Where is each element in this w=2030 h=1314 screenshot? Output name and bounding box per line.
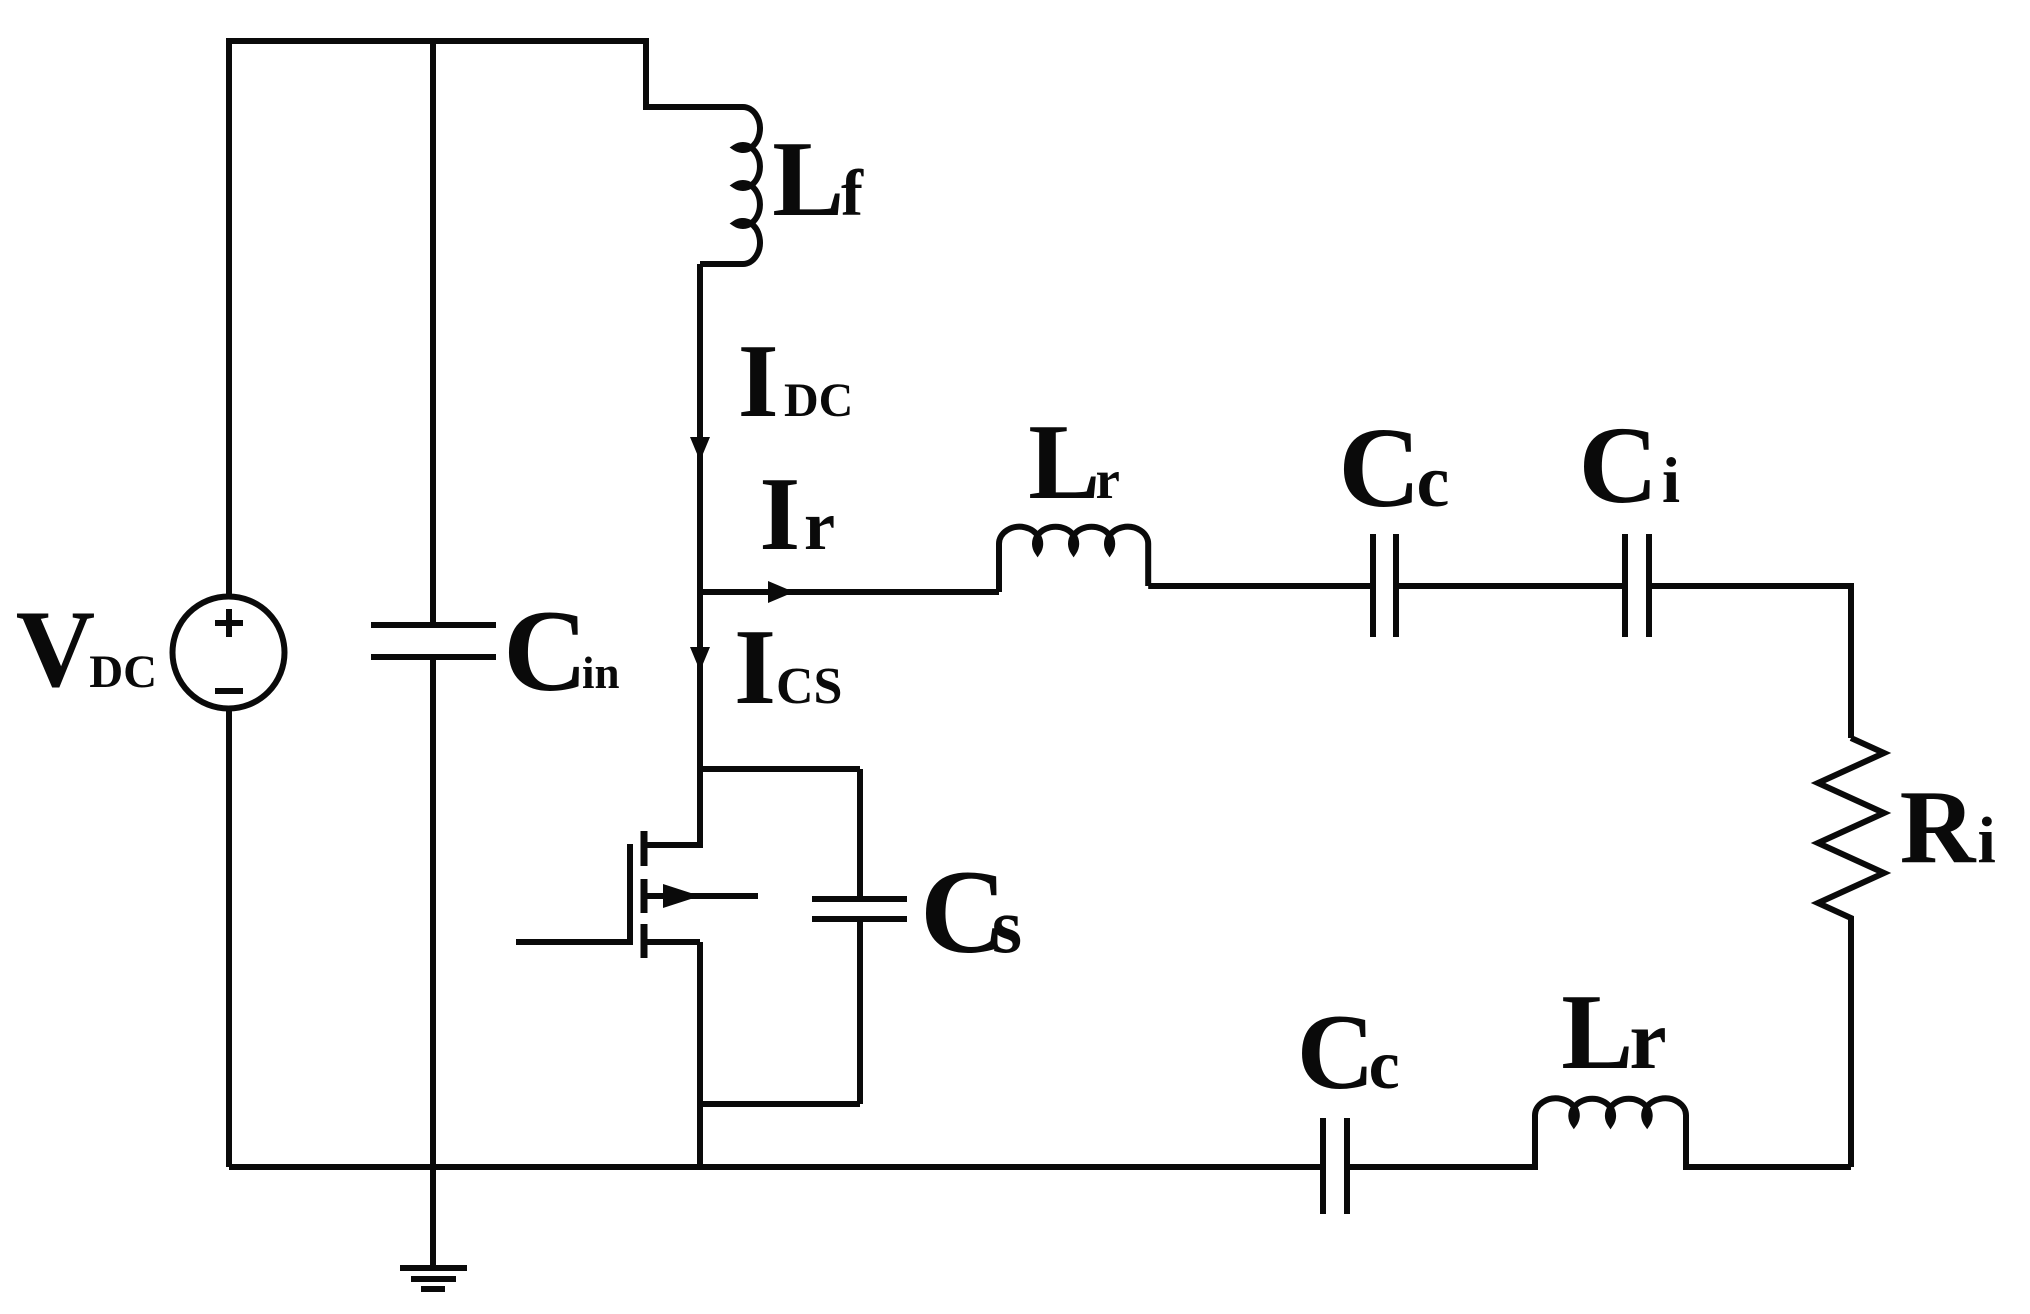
svg-text:DC: DC xyxy=(784,374,853,427)
svg-text:C: C xyxy=(1297,993,1375,1112)
svg-text:DC: DC xyxy=(89,646,157,698)
svg-text:i: i xyxy=(1978,804,1996,877)
svg-text:r: r xyxy=(1096,449,1120,510)
svg-text:C: C xyxy=(503,587,588,716)
svg-text:CS: CS xyxy=(776,658,842,715)
svg-text:C: C xyxy=(1338,404,1420,531)
svg-text:L: L xyxy=(772,120,844,239)
svg-text:s: s xyxy=(992,882,1022,969)
svg-text:R: R xyxy=(1900,768,1977,885)
svg-text:c: c xyxy=(1417,441,1450,523)
svg-text:I: I xyxy=(738,322,779,439)
svg-text:i: i xyxy=(1662,445,1680,517)
svg-text:f: f xyxy=(841,157,864,230)
svg-text:I: I xyxy=(759,455,800,572)
svg-text:c: c xyxy=(1369,1027,1400,1104)
svg-text:r: r xyxy=(1629,994,1666,1087)
svg-text:I: I xyxy=(734,608,776,727)
svg-text:L: L xyxy=(1561,973,1633,1092)
svg-text:in: in xyxy=(582,648,620,698)
svg-text:V: V xyxy=(16,588,95,710)
svg-text:L: L xyxy=(1028,403,1100,522)
svg-text:r: r xyxy=(804,488,835,565)
svg-text:C: C xyxy=(1579,404,1658,526)
